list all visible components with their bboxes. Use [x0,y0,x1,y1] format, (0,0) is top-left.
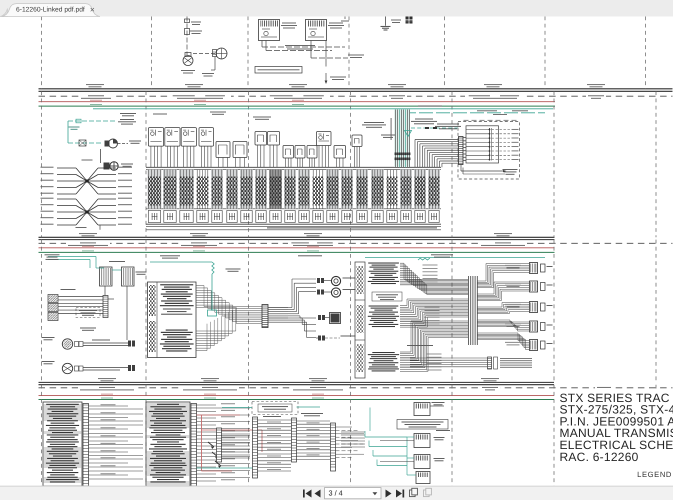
harness riser bundle [395,110,397,168]
snapshot tool icon [410,488,418,496]
separator 2 red power wire [39,247,555,249]
teal CAN wire 2 [402,112,545,114]
wire W5 [265,41,267,51]
relay K1 [259,20,280,41]
bottom label front console [267,227,437,228]
bottom harness run [410,357,487,359]
harness bundle left [58,296,103,298]
separator 3 lower rail line [39,384,555,386]
connector pair at M2 [75,342,79,347]
staircase down to actuators [288,315,300,317]
label BPL-P3 [76,226,87,229]
labels above table [210,111,226,114]
separator 1 harness labels row [86,83,104,86]
wires F to right [336,426,353,428]
label alternator [121,163,133,166]
RH module text group 1 [368,263,399,264]
fuel filter FL1 [79,140,86,146]
splice node S2 fan [57,198,76,200]
frame divider dashed verticals band 4 [41,385,43,486]
capacitor C1 plates [381,25,391,27]
labels M2 [42,336,55,339]
title block left dashed edge [553,385,555,486]
labels lamps [343,277,356,280]
work lamp L1 [331,276,340,285]
label W8 [330,76,346,79]
wire W1 vertical feed [186,17,188,56]
label W5 [287,48,313,51]
wire fans group2 to bus [400,305,407,307]
label C1 [391,19,401,22]
bottom labels RH [500,357,532,360]
label W6 [348,54,364,57]
note box N1 [255,67,302,74]
separator 3 red wire labels [101,393,113,396]
splice node S1 fan [57,167,76,169]
fuel pump P1 [105,141,110,147]
power distribution box top rail [146,166,441,168]
labels stack [61,288,76,291]
harness E-F [297,420,331,422]
labels mid band4 [263,415,281,418]
wire W3 gauge drop [214,57,216,70]
separator 1 red power wire [39,101,556,103]
exit wires below module [460,165,462,172]
previous page button [315,490,321,498]
last page button [396,490,402,498]
module ladder [489,128,491,161]
hitch connector pairs [530,263,538,274]
wires below relays [104,286,106,299]
RH console module strip [355,262,365,378]
long teal CAN wire [93,108,553,110]
teal jumper between relays [96,267,104,269]
vertical trunk wire [126,310,128,340]
dashed enclosure cab module [458,122,520,180]
dashed note box [76,308,100,318]
relay K2 [306,20,327,41]
note box RH [372,292,402,301]
LH module rotated strip [156,282,158,358]
wires M3 to right [83,367,128,369]
next page button [386,490,392,498]
wire fans group3 to bus [400,351,411,353]
label W4 [285,44,315,47]
wire W4 [261,41,263,48]
teal labels [160,254,180,257]
labels top left [45,253,60,256]
red loop right vertical [261,430,263,452]
wires from stack C [222,430,251,432]
teal dashed branch [411,127,458,129]
separator 2 frame name labels [66,242,110,245]
seat switch M3 [62,363,72,373]
teal pigtail [418,258,430,260]
toolbar top border [0,485,673,487]
connector X3 pin header [459,137,464,165]
labels relays [109,260,125,263]
wire W6 [310,41,312,59]
separator 2 lower rail line [39,239,555,241]
tick labels on enclosure top [464,119,469,122]
power distribution box bottom rails [146,208,441,210]
valve relay V4 [416,472,430,484]
teal drops [89,260,91,269]
label W3 [202,72,214,75]
teal staircase to valves [365,436,407,438]
wire alternator feed [100,149,102,163]
bus to hitch connector fans [478,280,487,282]
wire W8 arrow [325,73,327,81]
water trap sensor circuit teal loop [68,120,117,122]
active browser tab [2,4,101,17]
connector pairs right of motors [128,341,131,347]
teal return wire [197,467,257,469]
connector pair A1 [318,315,321,320]
pin stack C [217,428,222,462]
connector pairs before lamps [317,278,320,283]
separator 1 lower rail line [39,90,673,92]
square actuator A1 [331,314,340,323]
harness riser shading [394,110,410,168]
separator 1 frame boundary dashed line [39,95,673,97]
riser connector ticks [395,153,397,156]
alternator G1 block [104,163,110,170]
svg-text:3 / 4: 3 / 4 [329,489,343,498]
wires crossing 350 [341,431,365,433]
snapshot tool icon disabled [424,488,432,496]
note box wide [397,420,448,430]
wire W7 drop to note [325,41,327,67]
pin stack E [292,418,297,462]
label under group3 [407,344,433,347]
band 2 table bottom boundary line [146,229,441,231]
neighbour tab edge [0,9,8,17]
teal terminator box [208,310,217,316]
harness D-E [258,419,292,421]
frame divider dashed verticals bands 2-3 [41,91,43,237]
wires from block B [197,404,217,406]
alternator G1 ring [110,162,118,170]
separator 3 green wire labels [101,397,113,400]
pin stack D [253,417,258,478]
cab module inner box [466,126,499,163]
teal wire middle [150,261,212,263]
connector pair lower [318,336,321,341]
node stub [344,17,346,20]
separator 3 frame boundary dashed line [39,387,673,389]
labels M3 [42,360,55,363]
relay K4 [122,267,135,286]
separator 1 green wire labels [90,103,102,106]
frame divider dashed verticals band 1 [41,17,43,89]
staircase harness to connector X3 [414,140,416,168]
valve relay V3 [414,455,430,469]
separator 2 upper rail line [39,236,555,238]
backup alarm B1 horn [183,56,193,66]
RH module text group 2 [369,306,399,307]
air seat compressor M2 [62,339,72,349]
separator 1 green ground wire [39,105,556,107]
wires lower pair [316,337,318,339]
teal vertical at 370 [369,408,371,432]
wires from LH module lower staircase [196,330,236,332]
svg-text:RAC. 6-12260: RAC. 6-12260 [560,450,639,464]
browser tab bar background [0,0,673,17]
divider stub at 656 band 4 [655,385,657,390]
label BPL [82,159,93,162]
separator 2 green wire labels [82,250,94,253]
label vertical left of riser [390,118,393,140]
label backup alarm [181,69,195,72]
label V1 [432,401,445,404]
separator 1 upper rail line [39,88,673,90]
central bus X7 [468,276,470,345]
separator 3 harness labels row [98,377,116,380]
pin strip A [83,404,89,487]
option inner label box [258,404,292,412]
wire fans group1 to bus [400,262,404,264]
capacitor C1 lead [385,17,387,26]
hour meter gauge M1 [216,48,227,59]
pin stack F [331,423,336,471]
label above sockets right [364,121,384,124]
label HX [493,113,507,116]
labels right of valves [436,429,450,432]
wire labels B [221,402,235,405]
svg-text:LEGEND: LEGEND [637,470,672,479]
labels center span [298,254,322,257]
separator 2 red wire labels [82,245,94,248]
separator 2 green ground wire [39,251,555,253]
valve relay V1 [414,403,430,416]
teal jumper band4 [222,407,252,409]
valve relay V2 [414,434,430,448]
teal warning triangle [405,131,412,137]
LH module lower text rows [166,330,188,331]
svg-text:✕: ✕ [90,7,95,14]
bottom connectors [488,357,492,369]
bar to module wires [463,137,466,139]
label background lighting module [503,168,518,171]
svg-text:6-12260-Linked pdf.pdf: 6-12260-Linked pdf.pdf [16,7,85,14]
separator 2 harness labels row [79,232,97,235]
ECU connector block A [43,402,82,486]
wires from block A [89,405,129,407]
fan row labels RH [423,264,438,267]
teal wire top left [48,256,96,258]
bottom toolbar background [0,486,673,500]
teal long wire top RH [365,257,545,259]
LH module center rows [163,309,191,310]
relay K3 [100,267,113,286]
labels riser top [415,118,433,121]
separator 3 red power wire [39,395,555,397]
wire stub bottom [99,225,101,230]
wire pump dashes [118,143,129,145]
ECU connector block B [146,402,190,486]
separator 2 frame boundary dashed line [39,242,673,244]
fuse rating boxes row [148,211,160,223]
first page button [306,490,312,498]
separator 3 upper rail line [39,381,555,383]
separator 3 frame name labels [78,386,136,389]
wires M2 to right [83,342,128,344]
label teal left [69,126,80,129]
wires from LH module upper staircase [196,285,204,287]
separator 1 frame name labels [79,95,113,98]
fuse table wire columns with rotated labels [148,170,162,209]
connector X5 striped [103,296,108,318]
wires to lamps [324,280,331,282]
LH console module table [148,282,197,358]
connector stack X4 [48,295,58,303]
dropdown arrow [373,492,378,495]
connector X2 [213,50,217,57]
wire W2 alarm to gauge [193,53,215,55]
RH module text group 3 [372,352,394,353]
labels F1 [191,21,201,24]
separator 3 green ground wire [39,399,555,401]
red feed branches [197,414,241,416]
red feed wire vertical [201,415,203,471]
dark feeds to valves [380,440,414,442]
separator 1 red wire labels [90,99,102,102]
inline connector teal [76,119,81,123]
fuse F1 [185,29,190,35]
dashed option box [252,402,298,415]
connector X1 [185,19,190,23]
arrow marks [208,442,214,447]
backup alarm B1 base [185,53,191,57]
label teal top [120,118,134,121]
label pump [129,140,141,143]
fuse and relay sockets row [148,128,163,147]
connector pair at M3 [75,366,79,371]
staircase up to lamp pair [288,307,292,309]
bundle X6 to right [268,307,288,309]
pin strip B [191,404,197,487]
battery BT1 grid symbol [406,17,413,24]
labels top right teal [418,105,442,108]
work lamp L2 [331,288,340,297]
page number input [325,488,382,499]
label mid [120,112,136,115]
label relay K2 [329,22,343,25]
teal feeds to valves [407,436,414,438]
wire labels A [101,403,116,406]
label relay K1 [282,22,296,25]
labels lower [341,335,356,338]
LH module upper text rows [160,284,193,285]
connector X6 hatched bar [262,305,268,328]
